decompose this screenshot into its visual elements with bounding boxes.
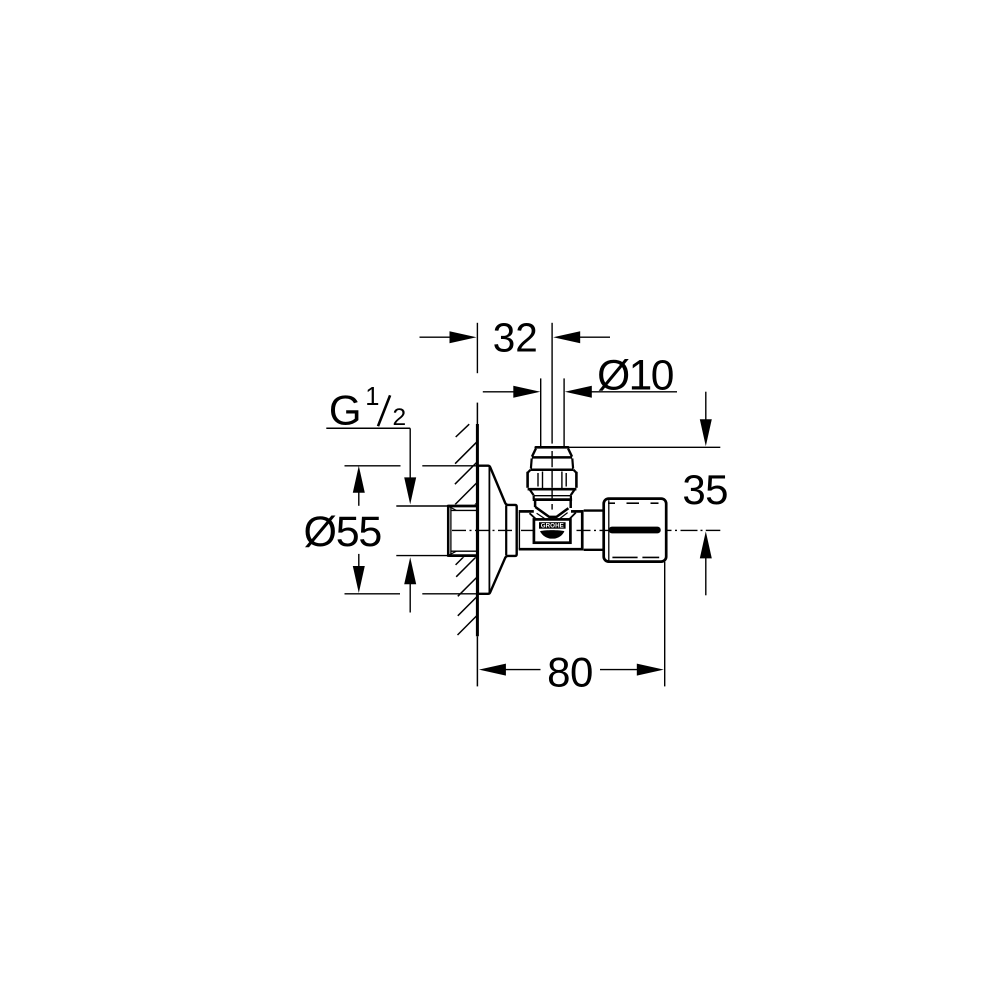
svg-text:35: 35 (682, 466, 728, 513)
svg-text:Ø55: Ø55 (303, 508, 381, 556)
svg-text:GROHE: GROHE (541, 522, 564, 529)
dimension 32 (420, 315, 611, 374)
wall hatching (455, 424, 477, 635)
dimension Ø10 (483, 353, 677, 400)
svg-text:Ø10: Ø10 (597, 353, 673, 400)
svg-text:1: 1 (365, 383, 379, 411)
handle groove band (612, 527, 657, 534)
inlet cone V on body (530, 501, 576, 520)
GROHE label box (534, 519, 571, 542)
valve body (519, 510, 584, 550)
threaded tail piece G1/2 (447, 504, 480, 557)
dimension 80 (479, 562, 665, 696)
compression fitting on top (528, 447, 577, 500)
label G 1/2 (326, 383, 448, 612)
pipe walls (Ø10 tube) (541, 378, 564, 447)
svg-text:32: 32 (493, 315, 538, 361)
wall line (476, 403, 478, 687)
svg-text:G: G (329, 387, 362, 434)
handle (604, 499, 667, 562)
valve stem housing (584, 511, 605, 550)
svg-text:80: 80 (547, 649, 593, 696)
vertical centerline of tube (551, 323, 553, 510)
escutcheon (wall rosette) (478, 466, 517, 594)
dimension 35 (570, 392, 729, 596)
dimension Ø55 (303, 466, 477, 594)
horizontal centerline (452, 529, 720, 531)
svg-text:2: 2 (393, 404, 407, 431)
